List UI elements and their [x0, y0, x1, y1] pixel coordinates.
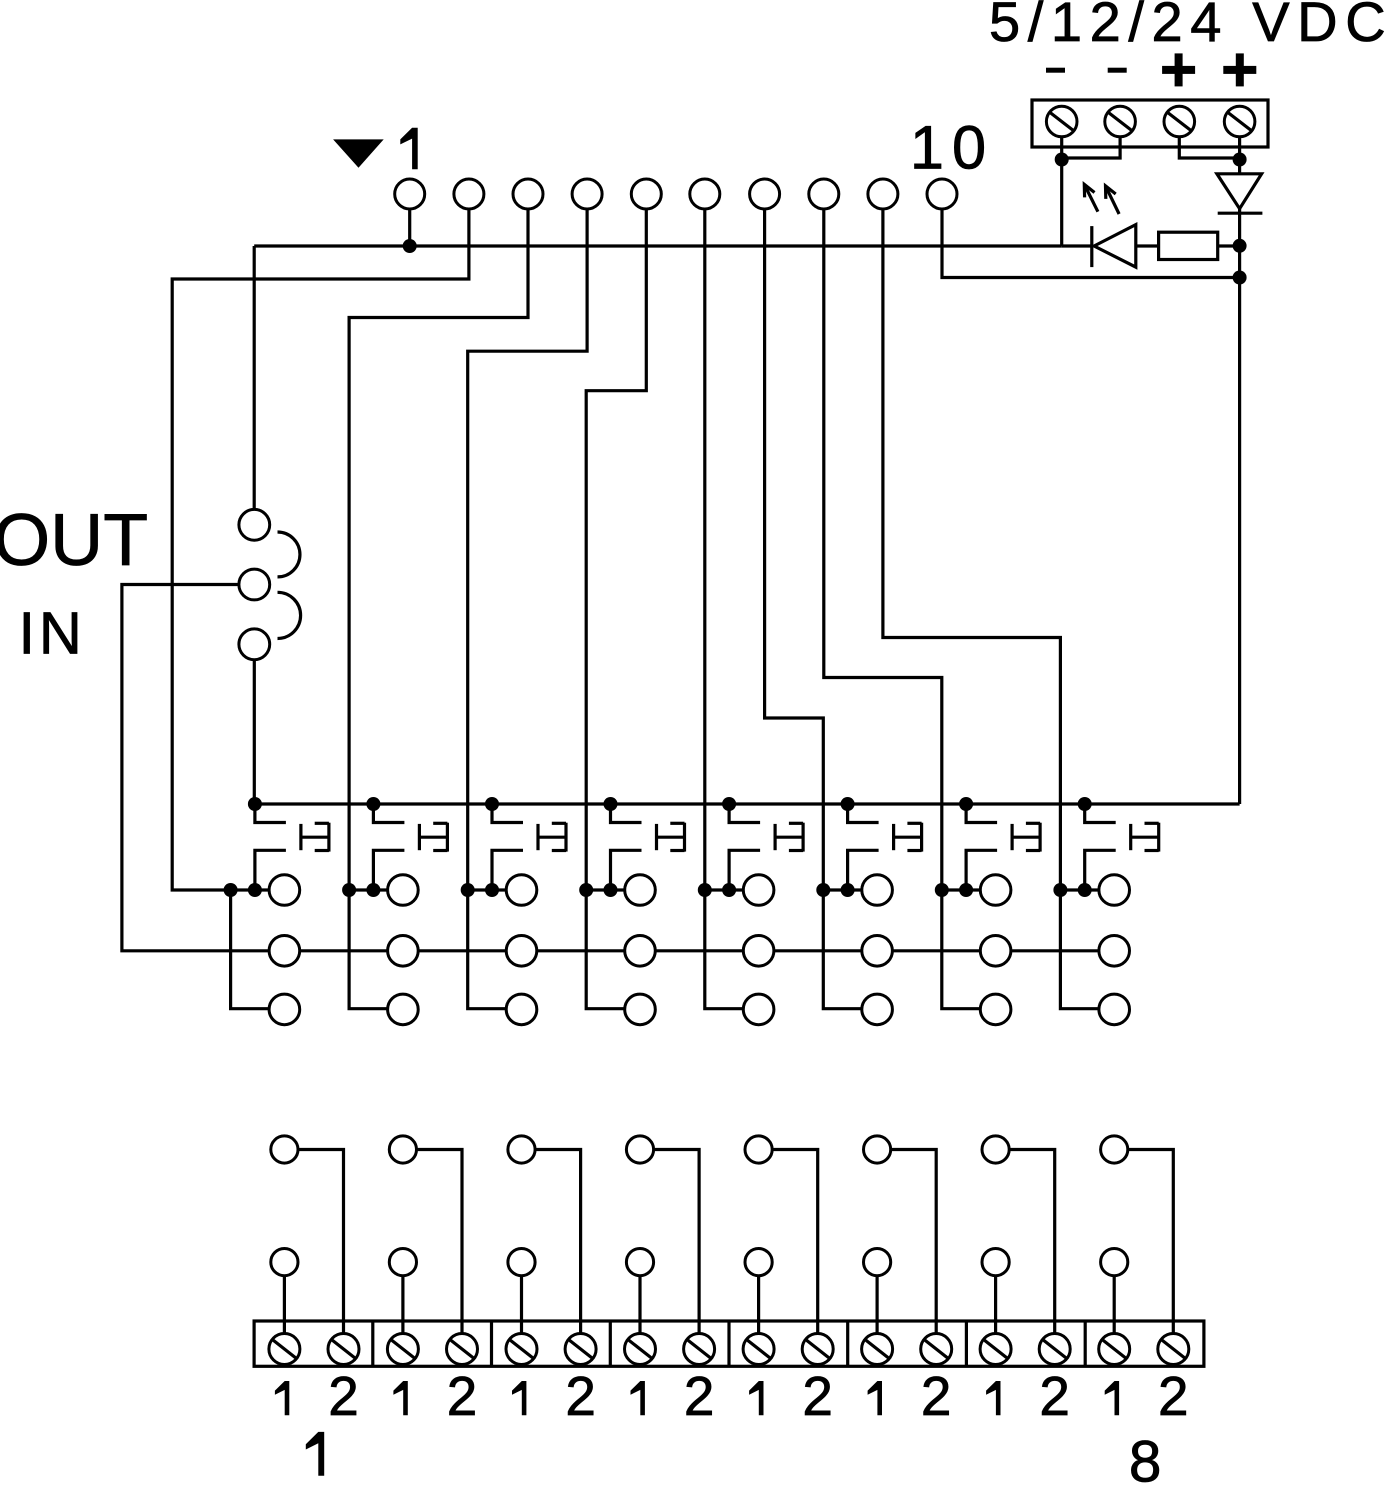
contact pin top channel 4 [625, 875, 656, 906]
wire lower contact to screw 1 channel 3 [520, 1276, 523, 1334]
contact pin top channel 5 [743, 875, 774, 906]
socket contact lower channel 3 [508, 1249, 535, 1276]
jumper pin top (OUT) [239, 509, 270, 540]
screw terminal 5-1 [743, 1334, 774, 1365]
junction gate bus channel 5 [722, 797, 736, 811]
socket contact upper channel 2 [389, 1136, 416, 1163]
connector pin 4 [572, 179, 602, 209]
wire pin1 stub to bus [408, 209, 411, 246]
socket contact upper channel 7 [982, 1136, 1009, 1163]
screw terminal 1-1 [269, 1334, 300, 1365]
LED light emission arrows [1084, 184, 1119, 214]
transistor Q5 [729, 804, 803, 890]
wire IN from jumper middle to input bus [122, 585, 269, 951]
terminal label 1 channel 5 [749, 1381, 763, 1415]
transistor Q1 [255, 804, 329, 890]
contact pin top channel 2 [388, 875, 419, 906]
wire lower contact to screw 1 channel 4 [638, 1276, 641, 1334]
polarity mark minus terminal 2 [1108, 68, 1127, 73]
input bus wire segments [300, 949, 1099, 952]
contact pin bottom channel 7 [980, 994, 1011, 1025]
jumper pin bottom (IN) [239, 629, 270, 660]
socket contact lower channel 4 [626, 1249, 653, 1276]
terminal label 1 channel 7 [986, 1381, 1000, 1415]
svg-text:2: 2 [1039, 1365, 1070, 1427]
screw terminal supply minus 2 [1105, 106, 1136, 137]
screw terminal supply plus 2 [1224, 106, 1255, 137]
wire upper contact to screw 2 channel 6 [891, 1150, 937, 1334]
socket contact upper channel 8 [1101, 1136, 1128, 1163]
contact pin bottom channel 1 [269, 994, 300, 1025]
wire output row channel 8 [1060, 888, 1099, 891]
polarity mark plus terminal 4 [1223, 53, 1256, 86]
connector pin 9 [868, 179, 898, 209]
contact pin bottom channel 6 [862, 994, 893, 1025]
contact pin middle channel 6 [862, 936, 893, 967]
wire to lower contact channel 7 [942, 890, 981, 1009]
contact pin top channel 7 [980, 875, 1011, 906]
wire plus1 to plus node [1179, 137, 1239, 158]
socket contact lower channel 6 [864, 1249, 891, 1276]
wire pin 8 to channel 7 input [824, 209, 942, 890]
terminal strip dividers [373, 1321, 1085, 1366]
svg-text:5/12/24 VDC: 5/12/24 VDC [989, 0, 1385, 53]
junction source channel 5 [722, 883, 736, 897]
wire output row channel 5 [705, 888, 744, 891]
junction source channel 8 [1078, 883, 1092, 897]
junction gate bus channel 8 [1078, 797, 1092, 811]
wire right rail down to gate bus [1238, 278, 1241, 805]
junction source channel 2 [366, 883, 380, 897]
socket contact lower channel 1 [271, 1249, 298, 1276]
LED indicator D2 [1062, 225, 1159, 268]
wire output row channel 2 [349, 888, 388, 891]
svg-text:2: 2 [802, 1365, 833, 1427]
junction input channel 1 [224, 883, 238, 897]
wire output row channel 7 [942, 888, 981, 891]
socket contact lower channel 8 [1101, 1249, 1128, 1276]
svg-text:2: 2 [328, 1365, 359, 1427]
wire plus2 to plus node [1238, 137, 1241, 160]
terminal label 1 channel 3 [512, 1381, 526, 1415]
contact pin bottom channel 8 [1099, 994, 1130, 1025]
wire upper contact to screw 2 channel 1 [298, 1150, 344, 1334]
wire plus branch down to pin10 node [1238, 246, 1241, 278]
wire pin 4 to channel 3 input [468, 209, 587, 890]
junction input channel 8 [1053, 883, 1067, 897]
resistor R1 [1159, 232, 1218, 259]
socket contact lower channel 2 [389, 1249, 416, 1276]
junction source channel 7 [959, 883, 973, 897]
screw terminal supply plus 1 [1164, 106, 1195, 137]
svg-text:2: 2 [684, 1365, 715, 1427]
svg-text:IN: IN [19, 600, 86, 667]
transistor Q3 [492, 804, 566, 890]
jumper arc bottom [278, 592, 301, 638]
junction gate bus channel 1 [248, 797, 262, 811]
junction gate bus channel 3 [485, 797, 499, 811]
pin label 1 [400, 128, 417, 169]
wire lower contact to screw 1 channel 8 [1113, 1276, 1116, 1334]
junction input channel 4 [579, 883, 593, 897]
connector pin 7 [750, 179, 780, 209]
wire to lower contact channel 5 [705, 890, 744, 1009]
wire plus node down to diode D1 [1238, 160, 1241, 174]
screw terminal 4-2 [684, 1334, 715, 1365]
wire lower contact to screw 1 channel 7 [994, 1276, 997, 1334]
contact pin middle channel 1 [269, 936, 300, 967]
junction gate bus channel 7 [959, 797, 973, 811]
svg-text:2: 2 [1158, 1365, 1189, 1427]
screw terminal 7-2 [1039, 1334, 1070, 1365]
wire upper contact to screw 2 channel 3 [535, 1150, 581, 1334]
socket contact lower channel 5 [745, 1249, 772, 1276]
wire to lower contact channel 1 [231, 890, 270, 1009]
wire resistor to plus branch node [1218, 244, 1240, 247]
junction pin10 node [1233, 271, 1247, 285]
wire minus2 to minus node [1062, 137, 1120, 158]
wire pin 9 to channel 8 input [883, 209, 1061, 890]
junction input channel 7 [935, 883, 949, 897]
screw terminal 3-1 [506, 1334, 537, 1365]
wire jumper bottom to gate bus [253, 660, 256, 804]
wire minus node down to LED cathode [1060, 160, 1063, 247]
junction gate bus channel 4 [604, 797, 618, 811]
junction input channel 3 [461, 883, 475, 897]
contact pin middle channel 3 [506, 936, 537, 967]
wire lower contact to screw 1 channel 1 [283, 1276, 286, 1334]
junction pin1 on bus [403, 239, 417, 253]
wire pin 3 to channel 2 input [349, 209, 528, 890]
connector pin 8 [809, 179, 839, 209]
connector pin 5 [631, 179, 661, 209]
screw terminal 6-2 [921, 1334, 952, 1365]
output terminal strip [254, 1321, 1204, 1366]
wire bus corner down to jumper top pin [253, 246, 256, 509]
screw terminal 2-1 [387, 1334, 418, 1365]
contact pin middle channel 8 [1099, 936, 1130, 967]
wire pin 10 to plus rail [942, 209, 1240, 278]
transistor Q8 [1085, 804, 1159, 890]
transistor Q4 [611, 804, 685, 890]
junction resistor/diode node [1233, 239, 1247, 253]
terminal label 1 channel 8 [1105, 1381, 1119, 1415]
screw terminal 8-2 [1158, 1334, 1189, 1365]
terminal label 1 channel 4 [631, 1381, 645, 1415]
contact pin top channel 3 [506, 875, 537, 906]
contact pin bottom channel 5 [743, 994, 774, 1025]
wire pin 5 to channel 4 input [586, 209, 646, 890]
svg-text:2: 2 [921, 1365, 952, 1427]
svg-text:2: 2 [447, 1365, 478, 1427]
junction gate bus channel 2 [366, 797, 380, 811]
socket contact upper channel 3 [508, 1136, 535, 1163]
wire output row channel 4 [586, 888, 625, 891]
transistor Q7 [966, 804, 1040, 890]
contact pin bottom channel 4 [625, 994, 656, 1025]
screw terminal 1-2 [328, 1334, 359, 1365]
svg-text:8: 8 [1129, 1430, 1162, 1495]
wire to lower contact channel 6 [823, 890, 862, 1009]
wire to lower contact channel 2 [349, 890, 388, 1009]
terminal label 1 channel 1 [275, 1381, 289, 1415]
wire to lower contact channel 3 [468, 890, 507, 1009]
wire output row channel 1 [231, 888, 270, 891]
connector pin 1 [395, 179, 425, 209]
screw terminal 8-1 [1099, 1334, 1130, 1365]
junction minus node [1055, 153, 1069, 167]
screw terminal 3-2 [565, 1334, 596, 1365]
diode D1 reverse protection [1217, 174, 1263, 246]
jumper pin middle (common) [239, 569, 270, 600]
polarity mark plus terminal 3 [1162, 53, 1195, 86]
wire lower contact to screw 1 channel 5 [757, 1276, 760, 1334]
junction source channel 4 [604, 883, 618, 897]
connector pin 6 [690, 179, 720, 209]
connector pin 3 [513, 179, 543, 209]
wire minus1 to minus node [1060, 137, 1063, 160]
contact pin middle channel 2 [388, 936, 419, 967]
svg-text:OUT: OUT [0, 498, 148, 581]
wire to lower contact channel 8 [1060, 890, 1099, 1009]
jumper arc top [278, 532, 300, 577]
screw terminal 4-1 [625, 1334, 656, 1365]
contact pin bottom channel 3 [506, 994, 537, 1025]
wire upper contact to screw 2 channel 8 [1128, 1150, 1174, 1334]
socket contact upper channel 1 [271, 1136, 298, 1163]
terminal label 1 channel 6 [868, 1381, 882, 1415]
svg-text:2: 2 [565, 1365, 596, 1427]
contact pin middle channel 5 [743, 936, 774, 967]
wire output row channel 6 [823, 888, 862, 891]
connector pin 10 [927, 179, 957, 209]
transistor Q2 [373, 804, 447, 890]
socket contact upper channel 5 [745, 1136, 772, 1163]
connector pin 2 [454, 179, 484, 209]
contact pin middle channel 4 [625, 936, 656, 967]
polarity mark minus terminal 1 [1046, 68, 1065, 73]
wire to lower contact channel 4 [586, 890, 625, 1009]
contact pin top channel 1 [269, 875, 300, 906]
wire upper contact to screw 2 channel 4 [654, 1150, 700, 1334]
gate bus wire [255, 802, 1240, 805]
screw terminal 7-1 [980, 1334, 1011, 1365]
wire lower contact to screw 1 channel 6 [875, 1276, 878, 1334]
screw terminal 6-1 [862, 1334, 893, 1365]
socket contact upper channel 4 [626, 1136, 653, 1163]
junction input channel 2 [342, 883, 356, 897]
pin 1 marker triangle [333, 139, 384, 167]
contact pin middle channel 7 [980, 936, 1011, 967]
terminal label 1 channel 2 [393, 1381, 407, 1415]
common bus wire from jumper corner to LED node [254, 244, 1061, 247]
channel label 1 [306, 1432, 324, 1476]
contact pin bottom channel 2 [388, 994, 419, 1025]
junction gate bus channel 6 [841, 797, 855, 811]
wire upper contact to screw 2 channel 5 [772, 1150, 818, 1334]
junction input channel 6 [816, 883, 830, 897]
contact pin top channel 6 [862, 875, 893, 906]
screw terminal supply minus 1 [1046, 106, 1077, 137]
socket contact lower channel 7 [982, 1249, 1009, 1276]
junction plus node [1233, 153, 1247, 167]
wire output row channel 3 [468, 888, 507, 891]
wire pin 6 to channel 5 input [703, 209, 706, 890]
screw terminal 5-2 [802, 1334, 833, 1365]
contact pin top channel 8 [1099, 875, 1130, 906]
transistor Q6 [848, 804, 922, 890]
power terminal block [1032, 100, 1268, 147]
svg-text:10: 10 [910, 114, 994, 182]
wire pin 2 to channel 1 input [172, 209, 469, 890]
screw terminal 2-2 [447, 1334, 478, 1365]
wire upper contact to screw 2 channel 2 [417, 1150, 463, 1334]
junction source channel 3 [485, 883, 499, 897]
wire lower contact to screw 1 channel 2 [401, 1276, 404, 1334]
junction source channel 1 [248, 883, 262, 897]
wire upper contact to screw 2 channel 7 [1009, 1150, 1054, 1334]
junction input channel 5 [698, 883, 712, 897]
socket contact upper channel 6 [864, 1136, 891, 1163]
junction source channel 6 [841, 883, 855, 897]
wire pin 7 to channel 6 input [765, 209, 824, 890]
